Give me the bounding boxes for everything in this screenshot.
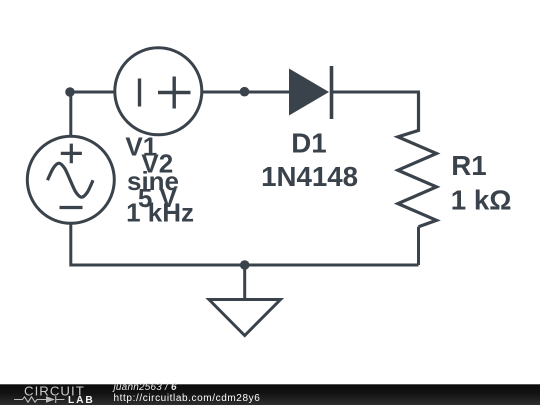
svg-text:1N4148: 1N4148 (261, 161, 358, 192)
svg-text:R1: R1 (451, 150, 486, 181)
V1 plus sign (158, 77, 191, 109)
V1 minus plate bar (138, 79, 141, 107)
wire diode cathode to right corner, down (333, 92, 419, 130)
svg-text:juann2563 / 6: juann2563 / 6 (112, 382, 177, 393)
wire ground stem (243, 265, 246, 300)
resistor R1 zigzag (398, 92, 437, 227)
svg-text:LAB: LAB (68, 395, 95, 405)
footer bar (0, 384, 540, 405)
diode D1 triangle (289, 69, 329, 116)
V2 minus sign (60, 206, 83, 209)
V2 sine wave (48, 163, 94, 197)
wire top-left horizontal (70, 91, 115, 94)
node junction dot top-left (65, 87, 75, 97)
node junction dot diode anode net (240, 87, 250, 97)
CircuitLab logo: squiggle resistor+diode glyph (14, 396, 65, 403)
wire resistor bottom lead (417, 227, 420, 265)
wire left vertical lower + bottom horizontal (71, 222, 419, 265)
V2 plus sign (61, 144, 82, 164)
svg-text:1 kΩ: 1 kΩ (451, 185, 512, 216)
voltage source V2 (sine) circle (27, 136, 114, 223)
wire left vertical upper (69, 92, 72, 138)
ground symbol triangle (209, 300, 281, 336)
node junction dot ground net (240, 260, 250, 270)
svg-text:1 kHz: 1 kHz (126, 198, 194, 228)
wire V1 right to diode (202, 91, 290, 94)
svg-text:http://circuitlab.com/cdm28y6: http://circuitlab.com/cdm28y6 (114, 393, 261, 404)
svg-text:D1: D1 (291, 127, 326, 158)
voltage source V1 (DC) circle (115, 48, 202, 135)
diode D1 cathode bar (330, 66, 334, 119)
